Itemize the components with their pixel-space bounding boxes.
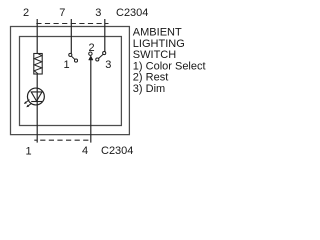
- svg-text:2: 2: [23, 7, 29, 19]
- svg-text:1: 1: [26, 146, 32, 158]
- resistor (illumination): [34, 54, 42, 75]
- wire pin7 to contact 1: [70, 19, 72, 53]
- svg-text:3) Dim: 3) Dim: [133, 83, 165, 95]
- LED light arrow upper: [24, 100, 30, 104]
- switch contact 3 circles: [103, 52, 106, 55]
- svg-text:C2304: C2304: [101, 145, 133, 157]
- connector C2304 bottom dashed line: [34, 139, 91, 141]
- inner box (switch detail): [20, 37, 122, 126]
- LED indicator: [27, 88, 44, 105]
- connector C2304 top dashed line: [36, 23, 108, 25]
- svg-text:3: 3: [105, 59, 111, 71]
- svg-text:7: 7: [59, 7, 65, 19]
- svg-text:2: 2: [89, 42, 95, 54]
- switch contact 1 lever: [71, 56, 75, 60]
- switch contact 3 lever: [99, 54, 104, 58]
- wire wiper to pin4: [90, 60, 92, 143]
- outer box (switch assembly): [11, 27, 130, 135]
- svg-text:AMBIENT: AMBIENT: [133, 27, 182, 39]
- LED light arrow lower: [26, 103, 32, 107]
- switch wiper arrow: [89, 56, 93, 60]
- svg-text:4: 4: [82, 145, 88, 157]
- wire pin2 to resistor to LED to pin1: [36, 19, 38, 143]
- svg-text:3: 3: [95, 7, 101, 19]
- wire pin3 to contact 3: [104, 19, 106, 52]
- switch contact 2 circle: [89, 52, 92, 55]
- svg-text:LIGHTING: LIGHTING: [133, 38, 185, 50]
- svg-text:SWITCH: SWITCH: [133, 49, 176, 61]
- switch description text: [133, 27, 206, 96]
- svg-text:C2304: C2304: [116, 7, 148, 19]
- svg-text:1) Color Select: 1) Color Select: [133, 60, 206, 72]
- svg-text:2) Rest: 2) Rest: [133, 72, 168, 84]
- switch contact 1 circles: [69, 53, 72, 56]
- svg-text:1: 1: [64, 59, 70, 71]
